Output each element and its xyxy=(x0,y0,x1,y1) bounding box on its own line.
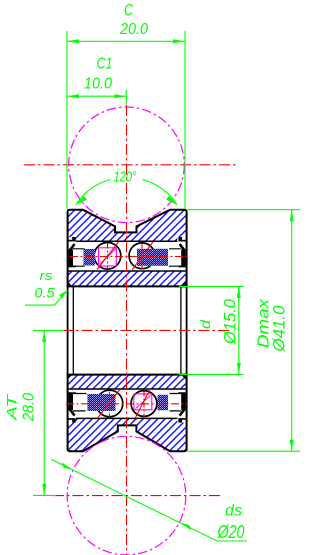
svg-text:28.0: 28.0 xyxy=(20,393,37,422)
svg-text:120°: 120° xyxy=(114,170,137,186)
svg-text:10.0: 10.0 xyxy=(84,76,112,93)
svg-text:d: d xyxy=(197,319,213,329)
svg-text:C: C xyxy=(124,1,134,20)
svg-text:Ø41.0: Ø41.0 xyxy=(270,305,289,353)
svg-text:0.5: 0.5 xyxy=(35,285,55,301)
svg-text:ds: ds xyxy=(225,503,242,520)
svg-text:20.0: 20.0 xyxy=(119,21,148,38)
svg-text:rs: rs xyxy=(40,268,54,283)
svg-text:Ø20: Ø20 xyxy=(217,522,245,542)
svg-text:Ø15.0: Ø15.0 xyxy=(221,298,240,344)
svg-text:AT: AT xyxy=(4,393,20,422)
svg-text:C1: C1 xyxy=(97,56,113,73)
